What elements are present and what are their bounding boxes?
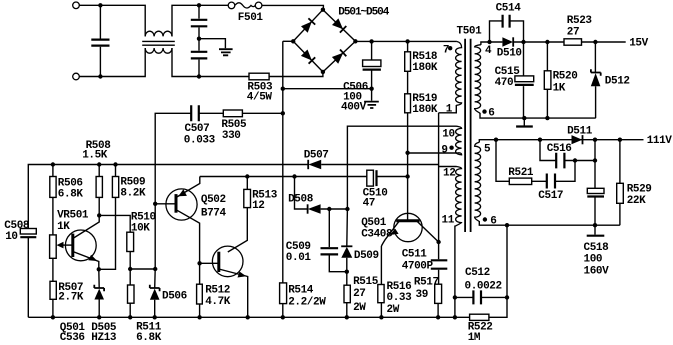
wire: fuse to bridge top (262, 5, 324, 9)
svg-text:4/5W: 4/5W (247, 92, 273, 104)
node rail R509 top (113, 162, 117, 166)
capacitor C512 (455, 267, 507, 304)
node R513 top (245, 174, 249, 178)
node C510 right / base vertical (405, 174, 409, 178)
svg-text:5: 5 (484, 143, 491, 155)
resistor R510 (127, 212, 156, 286)
svg-text:0.0022: 0.0022 (465, 281, 502, 293)
svg-text:R514: R514 (288, 285, 314, 297)
pin 10 wire to D508 node (347, 126, 456, 209)
T501 winding pins 12-11 (455, 167, 462, 227)
node pin9 junction on x=407.6 (405, 151, 409, 155)
potentiometer VR501 (50, 210, 89, 282)
svg-text:C536: C536 (60, 332, 85, 344)
T501 secondary winding pins 5-6 (475, 142, 481, 221)
svg-text:1: 1 (446, 103, 453, 115)
diode D511 (567, 125, 593, 144)
svg-text:D510: D510 (497, 48, 522, 60)
svg-text:R529: R529 (627, 183, 652, 195)
node rail D505 (97, 315, 101, 319)
node C512 right (505, 295, 509, 299)
node bridge right vertex (353, 39, 357, 43)
node R508 bottom / Q501 collector (97, 213, 101, 217)
AC input terminal bottom (73, 73, 80, 80)
svg-text:7: 7 (443, 45, 449, 57)
resistor R508 (82, 140, 111, 216)
node D508 branch top (292, 174, 296, 178)
ground symbol 111V return (594, 225, 596, 234)
wire: choke bottom right to R503 (172, 48, 249, 77)
wire: bottom AC line from terminal to choke (79, 48, 145, 77)
pin 6 top wire (480, 113, 596, 118)
svg-text:11: 11 (442, 215, 455, 227)
pin 9 wire to R519 bottom (408, 152, 457, 154)
svg-text:10: 10 (442, 129, 454, 141)
node C506 top (369, 39, 373, 43)
svg-text:R517: R517 (414, 277, 439, 289)
ground symbol Y-cap midpoint (199, 39, 233, 56)
node: junction between Y-caps (197, 37, 201, 41)
svg-text:12: 12 (252, 200, 264, 212)
transformer T501 (347, 26, 643, 318)
resistor R523 (564, 15, 592, 45)
node R520 top (545, 40, 549, 44)
resistor R517 (414, 277, 442, 318)
node on negative vertical at y=88.7 (281, 87, 285, 91)
svg-text:6.8K: 6.8K (58, 189, 84, 201)
svg-text:R505: R505 (221, 119, 247, 131)
diode D503 lower-left arm (301, 50, 312, 61)
diode D509 (341, 209, 379, 285)
svg-text:D508: D508 (288, 193, 314, 205)
T501 winding pins 10-9 (456, 126, 462, 155)
svg-text:HZ13: HZ13 (91, 332, 117, 344)
zener diode D505 (91, 269, 117, 344)
diode D501 upper-left arm (301, 22, 312, 33)
capacitor C509 (286, 209, 347, 272)
svg-text:C511: C511 (402, 249, 428, 261)
transistor driver NPN (212, 246, 247, 317)
svg-text:C507: C507 (185, 123, 210, 135)
wire: R510/R511 to D506 node (130, 268, 155, 270)
transistor Q502 PNP (166, 177, 227, 264)
node C516 right / C517 top (573, 158, 577, 162)
svg-text:C516: C516 (547, 143, 572, 155)
wire: R505/C507 line (155, 113, 283, 269)
wire: regulation rail y=164.5 from C508 corner to pin12 jog (28, 113, 438, 242)
resistor R513 (228, 177, 278, 253)
T501 secondary winding pins 4-6 (475, 45, 481, 114)
svg-text:C518: C518 (584, 242, 610, 254)
svg-text:9: 9 (441, 145, 447, 157)
capacitor C507 (184, 105, 216, 146)
node rail R512 (197, 315, 201, 319)
diode D504 lower-right arm (332, 53, 343, 64)
svg-text:D506: D506 (162, 291, 187, 303)
svg-text:39: 39 (416, 289, 428, 301)
pin 11 wire down to emitter rail (454, 226, 456, 318)
svg-text:12: 12 (443, 168, 455, 180)
node pin10 line joins D508 line (345, 207, 349, 211)
svg-text:1.5K: 1.5K (82, 150, 108, 162)
svg-text:27: 27 (567, 26, 579, 38)
svg-text:10K: 10K (131, 223, 150, 235)
node C518 bottom (593, 223, 597, 227)
svg-text:D507: D507 (304, 150, 329, 162)
capacitor C518 electrolytic (584, 140, 610, 278)
svg-text:4700P: 4700P (402, 260, 434, 272)
svg-text:22K: 22K (627, 195, 646, 207)
wire: choke top right to fuse (172, 5, 228, 36)
resistor R509 (99, 165, 146, 270)
resistor R514 (280, 283, 327, 317)
svg-text:8.2K: 8.2K (120, 188, 146, 200)
node C512 left (453, 295, 457, 299)
node C515 ground junction (522, 116, 526, 120)
svg-text:100: 100 (584, 254, 603, 266)
svg-text:15V: 15V (629, 38, 648, 50)
capacitor C515 electrolytic (495, 42, 534, 118)
pin 12 wire jog to collector vertical (439, 166, 457, 168)
transistor Q501 C3408 power switch (361, 213, 438, 246)
node: Y-cap pair bottom (197, 74, 201, 78)
wire: negative rail to C506 ground stem (283, 88, 372, 90)
svg-text:Q501: Q501 (361, 217, 387, 229)
capacitor C514 (490, 2, 524, 42)
capacitor C511 snubber (402, 242, 448, 284)
svg-text:C517: C517 (538, 190, 563, 202)
svg-text:4: 4 (485, 45, 492, 57)
node C509 joins D509 line (345, 270, 349, 274)
svg-text:0.33: 0.33 (387, 292, 413, 304)
choke core lines (142, 41, 175, 45)
svg-text:B774: B774 (201, 208, 227, 220)
zener diode D512 (591, 42, 630, 118)
resistor R520 (544, 42, 577, 118)
wire: DC+ from bridge right vertex to transformer pin7 (355, 40, 457, 42)
svg-text:2.2/2W: 2.2/2W (288, 296, 326, 308)
wire: negative DC vertical x=282.8 down to R514 (282, 41, 284, 283)
node: Y-cap pair top (197, 3, 201, 7)
resistor R518 (405, 51, 438, 74)
capacitor C506 electrolytic (341, 41, 381, 113)
resistor R505 (221, 110, 247, 142)
resistor R519 (405, 93, 438, 116)
svg-text:180K: 180K (412, 62, 438, 74)
wire: driver stage supply y=176.5 (200, 176, 408, 178)
svg-text:6: 6 (488, 108, 494, 120)
node collector junction x=438.6 (436, 240, 440, 244)
svg-text:4.7K: 4.7K (205, 296, 231, 308)
svg-text:47: 47 (363, 198, 375, 210)
svg-text:1K: 1K (57, 221, 70, 233)
capacitor X-cap input (91, 5, 109, 76)
wire: startup divider vertical x=407.6 (407, 41, 409, 219)
T501 primary winding pins 7-1 (456, 42, 462, 106)
svg-text:1M: 1M (468, 332, 481, 344)
node rail R517 (436, 315, 440, 319)
node C514 right / C515 top (521, 40, 525, 44)
svg-text:D501~D504: D501~D504 (338, 6, 389, 18)
capacitor C516 (540, 140, 595, 169)
svg-text:C514: C514 (496, 2, 522, 14)
node R520 bottom (545, 116, 549, 120)
pin 5 wire (479, 140, 643, 143)
svg-text:1K: 1K (553, 82, 566, 94)
fuse F501 (228, 2, 263, 24)
capacitor C510 electrolytic (363, 170, 388, 210)
resistor R511 (128, 285, 162, 344)
diode D502 upper-right arm (332, 18, 343, 29)
node: junction X-cap top (98, 3, 102, 7)
node R510 bottom / R511 top (128, 267, 132, 271)
node rail R511 (128, 315, 132, 319)
pin 6 bottom wire (479, 221, 620, 225)
resistor R503 (247, 72, 323, 104)
svg-text:R520: R520 (553, 71, 578, 83)
resistor R512 (197, 263, 231, 317)
svg-text:10: 10 (5, 231, 17, 243)
node D508/D509 junction (327, 207, 331, 211)
transistor Q501 error amp (60, 215, 99, 344)
svg-text:330: 330 (222, 130, 241, 142)
node rail R506 top (51, 162, 55, 166)
resistor R516 (378, 246, 412, 317)
node Q502 base junction (153, 202, 157, 206)
AC input terminal top (73, 2, 80, 9)
svg-text:C3408: C3408 (361, 229, 393, 241)
node bridge bottom vertex (321, 70, 325, 74)
svg-text:0.033: 0.033 (184, 134, 216, 146)
resistor R506 (50, 165, 84, 235)
node on C518 vertical (593, 158, 597, 162)
svg-text:T501: T501 (457, 26, 483, 38)
resistor R522 (468, 314, 493, 344)
svg-text:111V: 111V (647, 135, 673, 147)
capacitor C508 electrolytic (4, 220, 36, 317)
wire: primary-side ground rail (28, 225, 507, 317)
bridge arm wires (293, 10, 355, 72)
svg-text:160V: 160V (584, 265, 610, 277)
node rail pin11 (453, 315, 457, 319)
node rail D506 (153, 315, 157, 319)
svg-text:R523: R523 (567, 15, 593, 27)
wire: R508 bottom to R510 top (99, 215, 130, 232)
zener diode D506 (150, 269, 187, 317)
svg-text:R521: R521 (508, 167, 534, 179)
svg-text:2W: 2W (387, 304, 400, 316)
inductor common-mode choke top winding (145, 31, 172, 36)
svg-text:R515: R515 (353, 276, 379, 288)
svg-text:400V: 400V (341, 102, 367, 114)
inductor common-mode choke bottom winding (145, 48, 172, 53)
node R518 top (405, 39, 409, 43)
wire: bridge left vertex to negative vertical (283, 40, 293, 42)
svg-text:2W: 2W (353, 302, 366, 314)
resistor R521 (496, 140, 547, 185)
wire: Q502 base (155, 203, 176, 205)
ground symbol below C506 (364, 102, 379, 108)
resistor R515 (344, 276, 379, 317)
node bridge left vertex (291, 39, 295, 43)
node driver base (197, 261, 201, 265)
svg-text:2.7K: 2.7K (58, 292, 84, 304)
capacitor Y-cap upper (191, 5, 208, 38)
node pin4 junction (487, 40, 491, 44)
node R521 branch on 111V wire (494, 138, 498, 142)
pin 4 wire (481, 42, 490, 45)
wire: driver base (200, 262, 219, 264)
wire: D508 branch (295, 177, 348, 210)
wire: 15V rail (490, 41, 626, 43)
svg-text:Q502: Q502 (201, 194, 226, 206)
node rail R514 (281, 315, 285, 319)
svg-text:0.01: 0.01 (286, 252, 312, 264)
node rail R515 (345, 315, 349, 319)
diode D507 (304, 150, 329, 170)
node Q501 emitter junction (97, 267, 101, 271)
node: junction X-cap bottom (98, 74, 102, 78)
svg-text:D511: D511 (567, 125, 593, 137)
node C516 branch on 111V wire (538, 138, 542, 142)
svg-text:27: 27 (353, 288, 365, 300)
node D506 top (153, 267, 157, 271)
capacitor Y-cap lower (191, 39, 208, 77)
node rail R508 top (97, 162, 101, 166)
svg-text:R512: R512 (205, 285, 230, 297)
diode D510 (497, 37, 522, 59)
svg-text:180K: 180K (412, 104, 438, 116)
diode D508 (288, 193, 321, 214)
capacitor C517 (538, 161, 575, 203)
node C506 bottom junction (369, 87, 373, 91)
node rail R507 (51, 315, 55, 319)
svg-text:6.8K: 6.8K (136, 332, 162, 344)
wire: top AC line from terminal to choke (79, 5, 145, 36)
node bridge top vertex (321, 8, 325, 12)
svg-text:C512: C512 (465, 267, 490, 279)
T501 core lines (465, 39, 471, 232)
resistor R507 (50, 281, 84, 317)
pin 1 wire (439, 105, 457, 113)
svg-text:VR501: VR501 (57, 210, 89, 222)
svg-text:D512: D512 (605, 76, 630, 88)
node 111V ground rail / C512 vertical (505, 223, 509, 227)
node negative vertical at R505 wire (281, 111, 285, 115)
node D511 cathode / C518 top (593, 138, 597, 142)
node rail R516 (379, 315, 383, 319)
svg-text:470: 470 (495, 77, 514, 89)
svg-text:6: 6 (490, 215, 496, 227)
svg-text:D509: D509 (354, 250, 379, 262)
ground symbol 15V return (523, 118, 525, 125)
svg-text:F501: F501 (238, 12, 264, 24)
node R529 top (618, 138, 622, 142)
node D512 top (593, 40, 597, 44)
resistor R529 (617, 140, 652, 226)
diode bridge D501~D504 (291, 6, 390, 74)
node rail driver emitter (246, 315, 250, 319)
